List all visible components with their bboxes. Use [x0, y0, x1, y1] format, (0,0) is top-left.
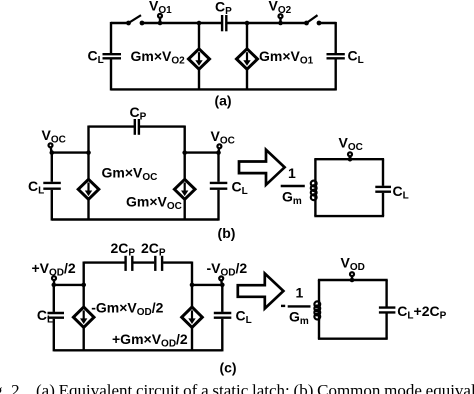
wire (b-eq) top rail [314, 158, 384, 160]
label VO1 [149, 0, 172, 16]
svg-text:VOC​: VOC​ [42, 127, 66, 146]
capacitor CP (a) plates [222, 15, 226, 31]
label CL (c right) [236, 308, 252, 327]
node VOC right terminal [217, 144, 221, 152]
switch S1 (a left) [126, 15, 144, 25]
wire (c) right branch lower [221, 319, 223, 352]
node -VOD/2 terminal [219, 276, 223, 285]
switch S2 (a right) [304, 15, 321, 25]
svg-text:+Gm×VOD​/2: +Gm×VOD​/2 [112, 331, 188, 350]
wire (b) right branch lower [217, 190, 219, 221]
label (b) [218, 225, 236, 241]
svg-text:VOC​: VOC​ [339, 135, 363, 154]
wire (a) left branch upper [110, 22, 112, 53]
wire (c) bridge right vertical [191, 262, 193, 285]
svg-text:+VOD​/2: +VOD​/2 [32, 260, 76, 279]
label Gm×VOC upper [102, 165, 158, 184]
wire (c) bridge right [163, 261, 192, 263]
junction dot branch2 top [245, 21, 250, 26]
wire (c) branch1 lower [82, 327, 84, 350]
svg-text:(a) Equivalent circuit of a st: (a) Equivalent circuit of a static latch… [36, 381, 474, 394]
wire (c) branch2 upper [191, 285, 193, 307]
wire (c-eq) bottom rail [318, 338, 388, 340]
wire (b) bridge left [89, 125, 135, 127]
wire (b) top rail right [185, 151, 219, 153]
label -VOD/2 [207, 260, 248, 279]
caption Fig. 2 [0, 381, 474, 394]
svg-text:-VOD​/2: -VOD​/2 [207, 260, 248, 279]
node VO2 terminal [279, 14, 283, 23]
wire (c) left branch lower [53, 319, 55, 352]
junction dot VO2 [278, 21, 283, 26]
label CL (a left) [88, 48, 104, 67]
current source +Gm×VOD/2 diamond [182, 307, 203, 327]
current source Gm×VO1 diamond [237, 49, 258, 69]
svg-text:VOC​: VOC​ [211, 128, 235, 147]
junction dot (c) rail right [190, 283, 195, 288]
wire (a) left branch lower [110, 59, 112, 90]
node VOC (b-eq) terminal [348, 152, 352, 159]
junction dot VO1 [158, 21, 163, 26]
wire (c-eq) right upper [385, 280, 387, 307]
label CL (b left) [28, 178, 44, 197]
label Gm×VOC lower [126, 194, 182, 213]
svg-text:CL​: CL​ [236, 308, 252, 327]
wire (c) bridge middle [133, 261, 154, 263]
capacitor CL (c left) plates [48, 313, 65, 318]
svg-text:VOD​: VOD​ [341, 255, 365, 274]
wire (a) branch2 lower [246, 69, 248, 89]
wire (b) bottom rail [52, 218, 219, 220]
svg-text:Gm×VO2​: Gm×VO2​ [131, 48, 186, 67]
svg-text:(b): (b) [218, 225, 236, 241]
wire (b) bridge right [140, 125, 185, 127]
junction dot (b) rail left [86, 150, 91, 155]
svg-text:Fig. 2.: Fig. 2. [0, 381, 24, 394]
wire (c) top rail left [54, 284, 84, 286]
capacitor CL (b left) plates [43, 183, 61, 189]
wire (c) branch1 upper [82, 285, 84, 307]
svg-text:(a): (a) [214, 93, 231, 109]
capacitor CL (a right) plates [327, 54, 345, 58]
wire (b-eq) left lower [314, 200, 316, 216]
wire (c) bridge left [84, 261, 125, 263]
label +Gm×VOD/2 [112, 331, 188, 350]
junction dot -VOD/2 [220, 283, 225, 288]
svg-text:-Gm×VOD​/2: -Gm×VOD​/2 [91, 299, 163, 318]
inductor 1/Gm (b-eq) [311, 180, 317, 201]
wire (b) branch1 lower [87, 199, 89, 219]
wire (c) bottom rail [54, 349, 223, 351]
capacitor CL (b-eq) plates [375, 187, 391, 192]
block arrow (c) [238, 274, 284, 309]
wire (b-eq) right upper [382, 159, 384, 186]
junction dot VOC right [216, 150, 221, 155]
label VO2 [269, 0, 292, 16]
node VOD (c-eq) terminal [350, 272, 354, 280]
wire (a) right branch lower [335, 59, 337, 90]
svg-text:VO2​: VO2​ [269, 0, 292, 16]
capacitor CL (c right) plates [214, 313, 232, 318]
svg-text:CL​: CL​ [393, 183, 409, 202]
label -Gm×VOD/2 [91, 299, 163, 318]
capacitor CP (b) plates [135, 119, 139, 135]
wire (a) branch1 lower [198, 69, 200, 89]
svg-text:CL​+2CP​: CL​+2CP​ [397, 303, 446, 322]
junction dot +VOD/2 [52, 283, 57, 288]
wire (b-eq) bottom rail [314, 215, 384, 217]
junction dot VOC (b-eq) [348, 157, 353, 162]
svg-text:CP​: CP​ [130, 104, 147, 123]
current source -Gm×VOD/2 diamond [73, 307, 94, 327]
wire (a) top rail right-middle segment [227, 22, 307, 24]
node VO1 terminal [158, 14, 162, 23]
label VOC (b-eq) [339, 135, 363, 154]
wire (a) bottom rail [111, 88, 336, 90]
inductor -1/Gm (c-eq) [314, 301, 320, 321]
wire (c-eq) left upper [318, 280, 320, 302]
junction dot branch1 top [197, 21, 202, 26]
capacitor CL+2CP (c-eq) plates [379, 308, 396, 313]
svg-text:Gm​: Gm​ [289, 309, 309, 328]
label 2CP-2 [141, 240, 166, 259]
node VOC left terminal [49, 143, 53, 152]
label CL (a right) [348, 48, 364, 67]
svg-text:Gm×VO1​: Gm×VO1​ [259, 48, 314, 67]
label +VOD/2 [32, 260, 76, 279]
svg-text:Gm×VOC​: Gm×VOC​ [102, 165, 158, 184]
wire (b-eq) left upper [314, 159, 316, 181]
label -1/Gm fraction (c) [281, 285, 311, 328]
junction dot (b) rail right [182, 150, 187, 155]
label CL+2CP (c-eq) [397, 303, 446, 322]
svg-text:1: 1 [288, 165, 296, 181]
junction dot (c) rail left [81, 283, 86, 288]
wire (b) left branch upper [51, 153, 53, 182]
svg-text:CL​: CL​ [88, 48, 104, 67]
svg-text:2CP​: 2CP​ [141, 240, 166, 259]
svg-text:CL​: CL​ [348, 48, 364, 67]
svg-text:Gm​: Gm​ [282, 189, 302, 208]
svg-text:Gm×VOC​: Gm×VOC​ [126, 194, 182, 213]
current source Gm×VO2 diamond [189, 49, 210, 69]
capacitor 2CP-1 plates [126, 256, 133, 271]
label CL (c left) [37, 307, 53, 326]
label 1/Gm fraction (b) [281, 165, 305, 207]
label CL (b right) [232, 179, 248, 198]
label (a) [214, 93, 231, 109]
wire (c-eq) right lower [385, 314, 387, 339]
capacitor CL (a left) plates [103, 54, 122, 58]
wire (c-eq) left lower [318, 319, 320, 338]
svg-text:2CP​: 2CP​ [111, 240, 136, 259]
capacitor CL (b right) plates [210, 183, 228, 189]
wire (b) left branch lower [51, 190, 53, 221]
wire (b) bridge right vertical [183, 126, 185, 153]
svg-text:1: 1 [296, 285, 304, 301]
svg-text:CL​: CL​ [37, 307, 53, 326]
wire (c) left branch upper [53, 285, 55, 312]
wire (c-eq) top rail [318, 279, 388, 281]
wire (a) branch2 upper [246, 23, 248, 49]
wire (b) branch1 upper [87, 153, 89, 180]
svg-text:CL​: CL​ [232, 179, 248, 198]
svg-text:VO1​: VO1​ [149, 0, 172, 16]
wire (a) top rail left segment [111, 22, 129, 24]
wire (a) top rail right segment [319, 22, 336, 24]
wire (c) top rail right [192, 284, 222, 286]
junction dot VOD (c-eq) [350, 278, 355, 283]
label VOC left [42, 127, 66, 146]
capacitor 2CP-2 plates [155, 256, 162, 271]
wire (c) right branch upper [221, 285, 223, 312]
node +VOD/2 terminal [52, 276, 56, 285]
wire (b) branch2 lower [183, 199, 185, 219]
svg-text:CP​: CP​ [215, 0, 232, 17]
label (c) [219, 360, 236, 376]
wire (a) top rail middle segment [142, 22, 222, 24]
label CL (b-eq) [393, 183, 409, 202]
wire (b-eq) right lower [382, 193, 384, 216]
wire (b) top rail left [52, 151, 89, 153]
block arrow (b) [239, 150, 285, 185]
current source Gm×VOC-1 diamond [78, 179, 99, 199]
wire (b) bridge left vertical [87, 126, 89, 153]
label 2CP-1 [111, 240, 136, 259]
label CP (a) [215, 0, 232, 17]
label CP (b) [130, 104, 147, 123]
label Gm×VO1 [259, 48, 314, 67]
wire (c) branch2 lower [191, 327, 193, 350]
svg-text:(c): (c) [219, 360, 236, 376]
wire (b) right branch upper [217, 153, 219, 182]
current source Gm×VOC-2 diamond [174, 179, 195, 199]
wire (a) right branch upper [335, 22, 337, 53]
wire (a) branch1 upper [198, 23, 200, 49]
wire (c) bridge left vertical [82, 262, 84, 285]
label VOD (c-eq) [341, 255, 365, 274]
svg-text:CL​: CL​ [28, 178, 44, 197]
junction dot VOC left [50, 150, 55, 155]
label Gm×VO2 [131, 48, 186, 67]
wire (b) branch2 upper [183, 153, 185, 180]
label VOC right [211, 128, 235, 147]
